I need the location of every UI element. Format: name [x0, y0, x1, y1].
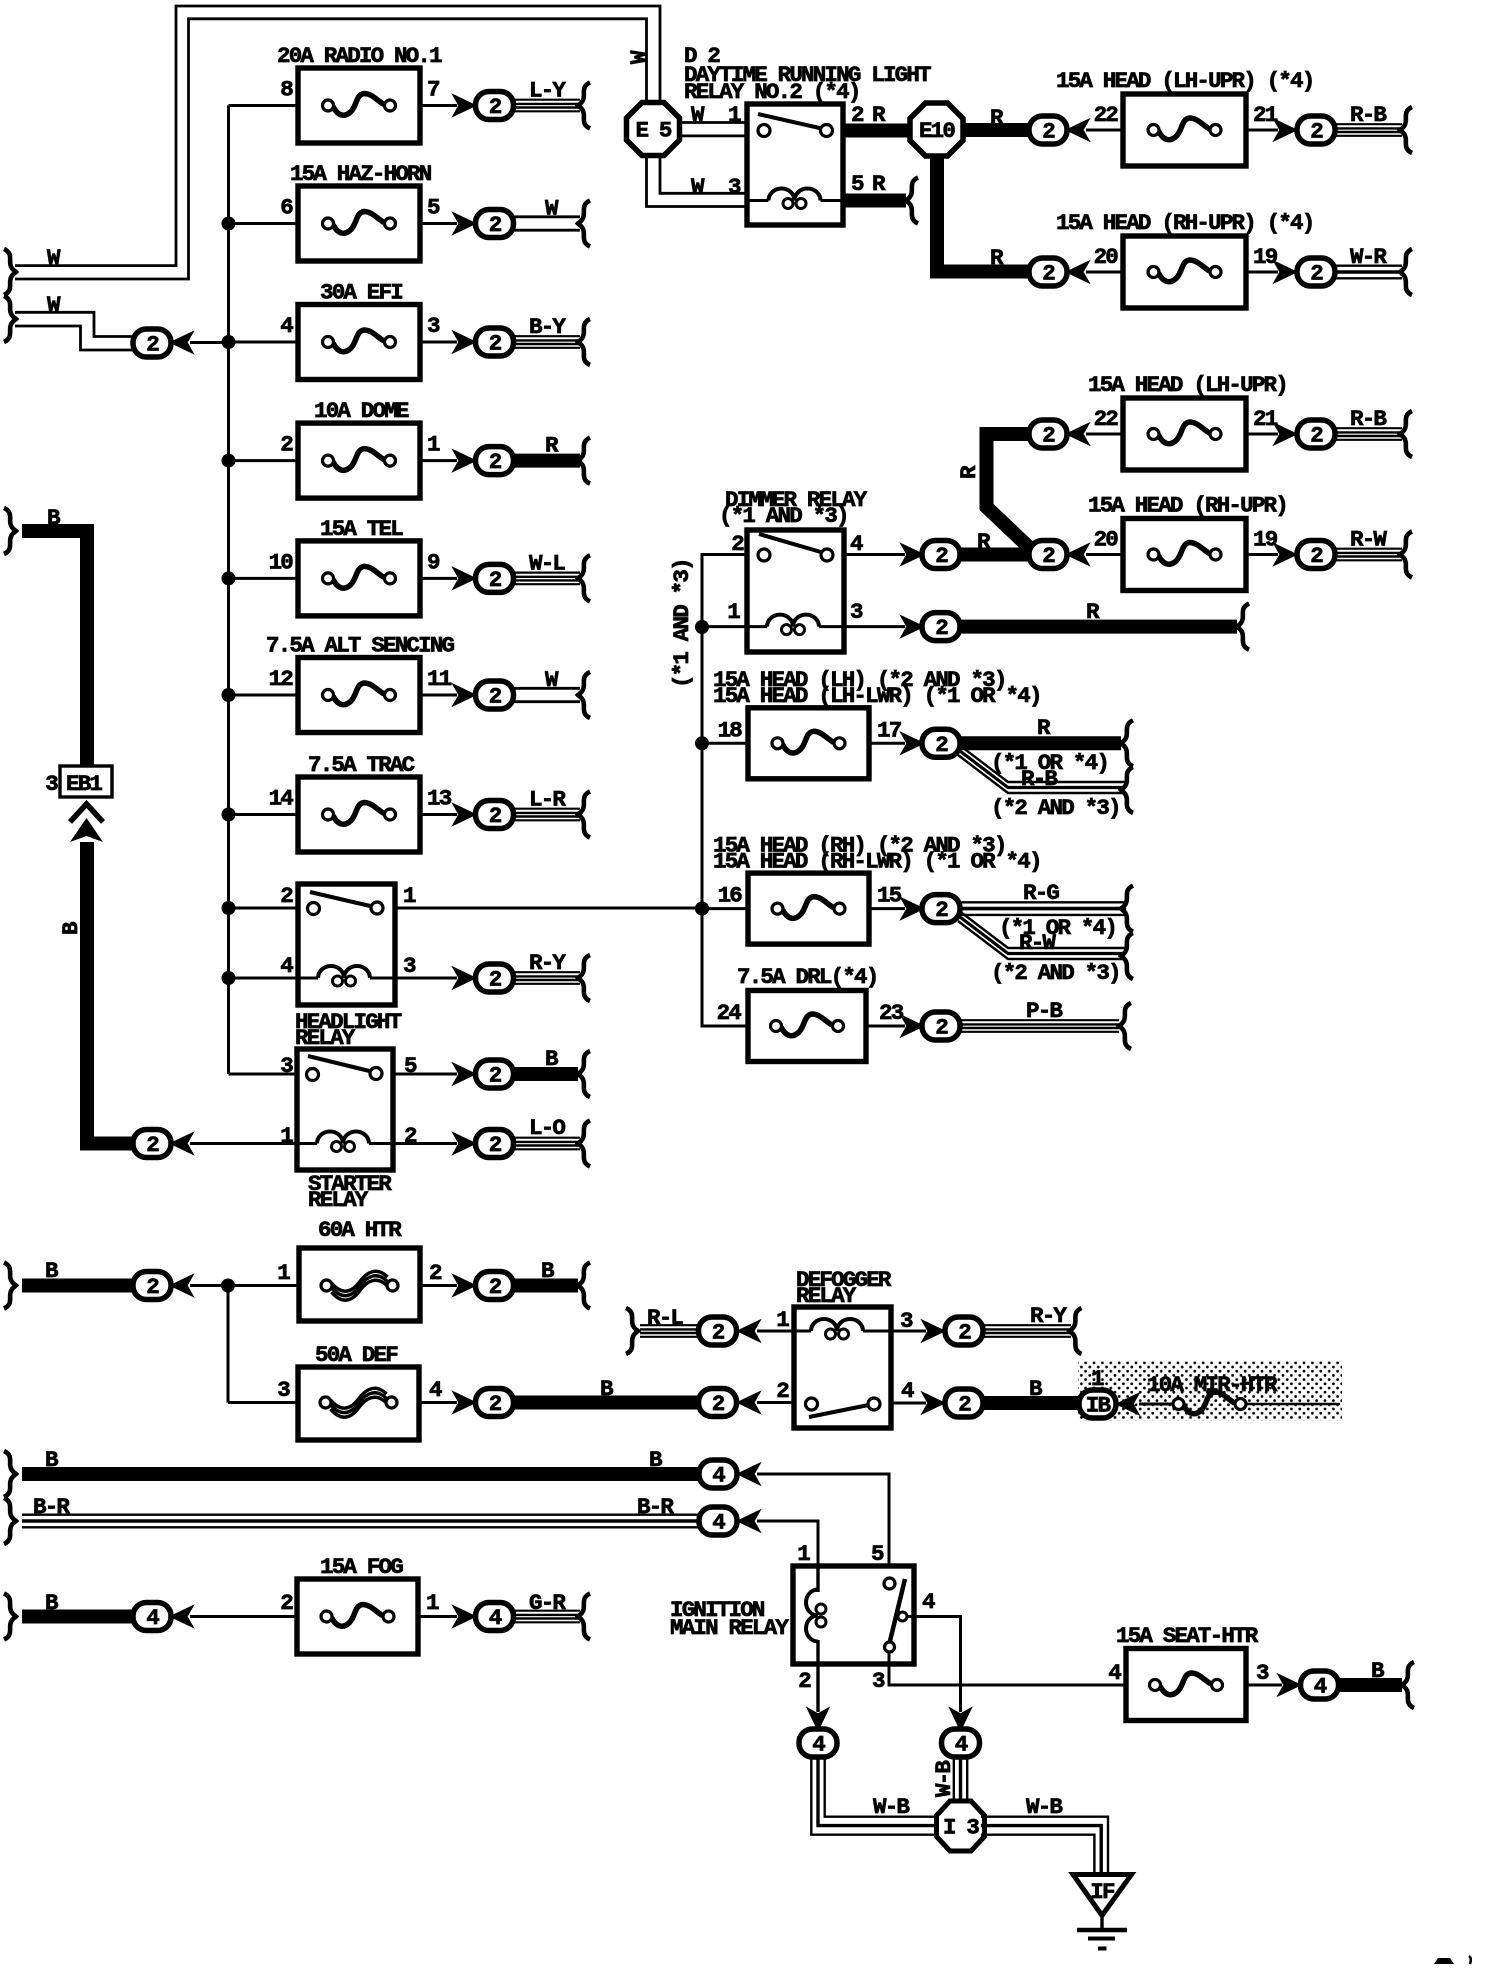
wire: connector to fuse — [1086, 433, 1123, 436]
svg-text:3: 3 — [1256, 1660, 1269, 1686]
svg-text:4: 4 — [922, 1589, 935, 1615]
fuse F6 7.5A ALT SENCING — [266, 633, 455, 733]
arrow into connector — [1276, 425, 1296, 444]
connector 2 (J/B) for F1 20A RADIO NO.1 — [476, 92, 514, 121]
wire R-G off-page (striped) — [959, 901, 1126, 903]
connector 4 (SEAT output) — [1301, 1671, 1339, 1700]
wire R-Y off-page (striped) — [983, 1324, 1071, 1326]
svg-text:(*1 AND *3): (*1 AND *3) — [669, 559, 695, 688]
wire: fuse output to connector — [420, 222, 457, 225]
svg-text:60A HTR: 60A HTR — [318, 1217, 402, 1243]
wire: ignition relay pin 3 to seat fuse — [889, 1652, 1126, 1685]
wire: bus to headlight relay pin 2 — [229, 907, 299, 910]
wire: fuse output — [1246, 1684, 1282, 1687]
fuse F5 15A TEL — [298, 516, 420, 616]
svg-text:2: 2 — [404, 1123, 417, 1149]
arrow into connector — [924, 1394, 944, 1413]
wire: connector to ignition relay pin 5 — [757, 1474, 889, 1566]
relay IGNITION MAIN RELAY — [793, 1566, 914, 1664]
wire W-B: pin4 connector down to I3 (striped) — [953, 1757, 955, 1802]
wire R: dimmer feed up-elbow to LH-UPR connector (thick) — [987, 434, 1036, 553]
continuation brace — [1400, 411, 1412, 457]
arrow into connector — [924, 1322, 944, 1341]
svg-text:50A DEF: 50A DEF — [315, 1342, 398, 1368]
arrow into connector — [455, 1134, 475, 1153]
wire: bus stub to fuse F4 10A DOME — [229, 459, 299, 462]
svg-text:30A EFI: 30A EFI — [320, 280, 402, 306]
fuse F1 20A RADIO NO.1 — [277, 43, 442, 143]
wire: mid bus vertical — [701, 627, 704, 1026]
fuse F9 15A HEAD (RH-UPR) (*4) — [1056, 210, 1313, 308]
junction on left bus — [222, 688, 236, 702]
wire: connector to defogger relay pin 2 — [757, 1401, 794, 1404]
wire W-L off-page — [514, 571, 580, 573]
svg-text:15A HEAD (LH-UPR): 15A HEAD (LH-UPR) — [1088, 372, 1287, 398]
svg-text:2: 2 — [280, 432, 293, 458]
svg-text:R-Y: R-Y — [529, 950, 566, 976]
connector IB — [1079, 1390, 1116, 1419]
wire W-R off-page — [1335, 265, 1402, 267]
relay STARTER RELAY — [297, 1049, 393, 1170]
svg-text:4: 4 — [1108, 1660, 1121, 1686]
svg-text:17: 17 — [877, 717, 901, 743]
connector 2 (starter relay coil out) — [476, 1130, 514, 1159]
arrow into connector — [1068, 263, 1088, 282]
connector 2 output of F9 15A HEAD (RH-UPR) (*4) — [1297, 258, 1335, 287]
wire: fuse output to connector — [420, 104, 457, 107]
arrow into connector — [739, 1465, 759, 1484]
continuation brace — [1070, 1308, 1082, 1354]
fuse F3 30A EFI — [298, 280, 420, 380]
wire: connector to fuse — [1086, 129, 1123, 132]
connector 2 output of F8 15A HEAD (LH-UPR) (*4) — [1297, 116, 1335, 145]
svg-text:W-B: W-B — [873, 1794, 910, 1820]
splice EB1 — [60, 766, 112, 797]
wire: starter relay pin 5 to connector — [393, 1073, 457, 1076]
wire: bus stub to fuse F5 15A TEL — [229, 577, 299, 580]
svg-text:12: 12 — [269, 666, 294, 692]
scan speck — [1469, 1956, 1471, 1964]
arrow into connector — [455, 805, 475, 824]
svg-text:MAIN RELAY: MAIN RELAY — [670, 1615, 789, 1641]
arrow into connector — [903, 734, 923, 753]
svg-text:14: 14 — [269, 786, 294, 812]
wire: bus end into starter relay pin 3 — [229, 1073, 298, 1076]
arrow into connector — [455, 686, 475, 705]
svg-text:15: 15 — [877, 883, 902, 909]
svg-text:R-L: R-L — [647, 1305, 683, 1331]
connector 2 feeding F8 15A HEAD (LH-UPR) (*4) — [1029, 116, 1067, 145]
continuation brace — [578, 438, 590, 484]
wire: dimmer pin 4 to connector — [844, 553, 905, 556]
svg-text:R-B: R-B — [1350, 102, 1387, 128]
wire: bus stub to fuse F6 7.5A ALT SENCING — [229, 694, 299, 697]
svg-text:R-G: R-G — [1023, 880, 1059, 906]
relay DIMMER RELAY (*1 AND *3) — [747, 530, 844, 652]
wire W-B: pin2 connector down and right to I3 (striped) — [811, 1757, 940, 1835]
junction HTR/DEF feed — [221, 1279, 235, 1293]
svg-text:R-Y: R-Y — [1030, 1303, 1067, 1329]
svg-text:20: 20 — [1094, 527, 1119, 553]
svg-text:3: 3 — [872, 1668, 885, 1694]
arrow into connector — [1068, 121, 1088, 140]
wire L-Y off-page — [514, 99, 580, 101]
connector 2 feeding F9 15A HEAD (RH-UPR) (*4) — [1029, 258, 1067, 287]
continuation brace — [906, 178, 918, 224]
svg-text:10A DOME: 10A DOME — [314, 398, 409, 424]
connector I3 (octagon) — [937, 1801, 985, 1851]
svg-text:20: 20 — [1094, 244, 1119, 270]
connector 2 output of F13 15A HEAD (RH) — [922, 895, 960, 924]
svg-text:6: 6 — [280, 195, 293, 221]
fuse 10A MIR-HTR — [1139, 1392, 1340, 1414]
wire B off-page (thick) — [514, 1279, 578, 1293]
continuation brace — [578, 672, 590, 718]
continuation brace — [578, 955, 590, 1001]
svg-text:5: 5 — [427, 195, 440, 221]
wire: DRL fuse output — [866, 1025, 905, 1028]
svg-text:21: 21 — [1253, 102, 1278, 128]
wire: bus to fuse — [702, 742, 748, 745]
continuation brace — [4, 296, 16, 342]
continuation brace — [578, 1594, 590, 1640]
wire R: E10 down to RH-UPR fuse connector (thick) — [937, 155, 1031, 272]
wire R: relay pin 2 to E10 (thick) — [843, 124, 912, 138]
wire L-O off-page (striped) — [514, 1137, 580, 1139]
relay HEADLIGHT RELAY — [298, 884, 395, 1005]
svg-text:2: 2 — [280, 1590, 293, 1616]
arrow into connector — [455, 214, 475, 233]
svg-text:1: 1 — [280, 1123, 293, 1149]
wire: fuse output — [1246, 129, 1278, 132]
svg-text:L-Y: L-Y — [529, 78, 566, 104]
svg-text:10: 10 — [269, 549, 294, 575]
junction on left bus — [222, 971, 236, 985]
svg-text:(*2 AND *3): (*2 AND *3) — [991, 960, 1120, 986]
svg-text:(*2 AND *3): (*2 AND *3) — [991, 795, 1120, 821]
connector E5 (octagon) — [627, 103, 680, 156]
svg-text:2: 2 — [280, 883, 293, 909]
fuse F8 15A HEAD (LH-UPR) (*4) — [1056, 68, 1313, 166]
svg-text:RELAY NO.2 (*4): RELAY NO.2 (*4) — [684, 79, 860, 105]
wire: dimmer pin 1 to bus — [702, 625, 747, 628]
continuation brace — [4, 1451, 16, 1497]
svg-text:1: 1 — [426, 1590, 439, 1616]
connector 2 (J/B) for F6 7.5A ALT SENCING — [476, 681, 514, 710]
arrow out of connector — [739, 1393, 759, 1412]
svg-text:1: 1 — [727, 599, 740, 625]
wire R-B off-page — [1335, 123, 1402, 125]
connector 2 (J/B) for F5 15A TEL — [476, 564, 514, 593]
continuation brace — [4, 1498, 16, 1544]
svg-text:I 3: I 3 — [943, 1815, 979, 1841]
wire: dimmer pin 3 to connector — [844, 625, 905, 628]
svg-text:15A HEAD (LH-UPR) (*4): 15A HEAD (LH-UPR) (*4) — [1056, 68, 1313, 94]
wire: bus to fuse — [702, 907, 748, 910]
svg-text:B-R: B-R — [33, 1494, 70, 1520]
connector 4 (FOG feed) — [133, 1603, 171, 1632]
continuation brace — [4, 1263, 16, 1309]
svg-text:1: 1 — [403, 883, 416, 909]
hatched area (other circuit) — [1078, 1362, 1342, 1421]
svg-text:3: 3 — [403, 953, 416, 979]
wire B-R: ignition relay pin 1 feed off-page (striped) — [22, 1513, 700, 1515]
connector 2 (defogger coil out) — [945, 1317, 983, 1346]
svg-text:L-O: L-O — [529, 1115, 565, 1141]
wire: bus stub to fuse F7 7.5A TRAC — [229, 813, 299, 816]
connector 4 (B-R feed) — [699, 1507, 737, 1536]
svg-text:4: 4 — [429, 1377, 442, 1403]
wire R off-page (thick) — [959, 620, 1237, 634]
arrow into connector — [172, 1134, 192, 1153]
wire: fuse output — [869, 742, 905, 745]
arrow into connector — [172, 1607, 192, 1626]
wire: bus stub to fuse F3 30A EFI — [229, 341, 299, 344]
wire W off-page — [514, 687, 580, 690]
svg-text:4: 4 — [280, 313, 293, 339]
connector 2 output of F12 15A HEAD (LH) — [922, 729, 960, 758]
continuation brace — [578, 792, 590, 838]
svg-text:19: 19 — [1253, 244, 1278, 270]
wire R-B off-page (striped, diagonal then horizontal) — [958, 744, 1126, 782]
svg-text:R-B: R-B — [1350, 406, 1387, 432]
fuse F10 15A HEAD (LH-UPR) — [1088, 372, 1287, 470]
wire R: E10 to LH-UPR fuse connector (thick) — [962, 123, 1031, 137]
wire B: EB1 riser upper segment (thick) — [22, 531, 87, 766]
wire: connector to fuse — [1086, 271, 1123, 274]
wire R off-page — [514, 454, 580, 468]
fuse F14 7.5A DRL(*4) — [748, 991, 866, 1062]
svg-text:4: 4 — [280, 953, 293, 979]
continuation brace (R-W) — [1121, 933, 1133, 979]
wire B off-page left (thick) — [22, 1610, 133, 1624]
wire B off-page (thick) — [514, 1067, 578, 1081]
wire R off-page (thick) — [959, 736, 1121, 750]
connector 2 output of F11 15A HEAD (RH-UPR) — [1297, 541, 1335, 570]
arrow into connector — [455, 333, 475, 352]
wire: 60A HTR output — [420, 1284, 457, 1287]
svg-text:11: 11 — [427, 666, 452, 692]
svg-text:W-R: W-R — [1350, 244, 1387, 270]
wire W: E5 to relay pin 3 (hollow) — [647, 155, 748, 207]
wire: dimmer pin 2 to mid bus — [702, 555, 747, 628]
continuation brace — [578, 555, 590, 601]
continuation brace — [578, 1051, 590, 1097]
junction mid bus at headlamp feed — [695, 902, 709, 916]
arrow into connector — [739, 1512, 759, 1531]
wire R-B off-page — [1335, 427, 1402, 429]
arrow into connector — [1276, 263, 1296, 282]
arrow into connector — [1068, 545, 1088, 564]
connector 2 feeding F10 15A HEAD (LH-UPR) — [1029, 420, 1067, 449]
svg-text:15A HEAD (RH-LWR) (*1 OR *4): 15A HEAD (RH-LWR) (*1 OR *4) — [713, 848, 1041, 874]
connector 4 (B feed) — [699, 1460, 737, 1489]
wire: connector to 60A HTR — [190, 1284, 299, 1287]
svg-text:15A HEAD (LH-LWR) (*1 OR *4): 15A HEAD (LH-LWR) (*1 OR *4) — [713, 683, 1041, 709]
scan speck — [1434, 1958, 1454, 1964]
wire: connector to fuse — [1086, 553, 1123, 556]
svg-text:1: 1 — [427, 432, 440, 458]
fuse 15A SEAT-HTR — [1126, 1649, 1246, 1721]
arrow into connector — [455, 1065, 475, 1084]
connector 2 (J/B) for F2 15A HAZ-HORN — [476, 210, 514, 239]
continuation brace (R) — [1121, 720, 1133, 766]
svg-text:L-R: L-R — [529, 787, 566, 813]
svg-text:7.5A DRL(*4): 7.5A DRL(*4) — [737, 964, 877, 990]
wire: bus stub to fuse F2 15A HAZ-HORN — [229, 222, 299, 225]
svg-text:15A HEAD (RH-UPR): 15A HEAD (RH-UPR) — [1088, 493, 1287, 519]
svg-text:3: 3 — [427, 313, 440, 339]
relay D2 DAYTIME RUNNING LIGHT RELAY NO.2 — [747, 104, 843, 225]
svg-text:16: 16 — [718, 883, 743, 909]
arrow into connector — [1068, 425, 1088, 444]
connector 2 (EFI feed) — [133, 329, 171, 358]
wire B-Y off-page — [514, 335, 580, 337]
continuation brace — [1400, 249, 1412, 295]
arrow down into connector — [951, 1710, 970, 1730]
wire R-L off-page (striped) — [640, 1324, 699, 1326]
arrow into connector — [1276, 545, 1296, 564]
wire: headlight relay pin 1 to mid bus — [395, 907, 702, 910]
svg-text:P-B: P-B — [1026, 998, 1063, 1024]
wire B off-page (thick) — [1339, 1678, 1402, 1692]
connector 4 (pin 2 out) — [799, 1729, 837, 1758]
svg-text:R-W: R-W — [1019, 930, 1056, 956]
wire W: E5 to relay pin 1 (hollow) — [679, 121, 747, 124]
fuse 15A FOG — [297, 1579, 418, 1654]
arrow into connector — [455, 451, 475, 470]
svg-text:3: 3 — [850, 599, 863, 625]
svg-text:19: 19 — [1253, 527, 1278, 553]
wire R: relay pin 5 off-page (thick) — [843, 194, 906, 208]
wire: mid bus elbow into DRL fuse — [702, 909, 748, 1026]
connector 2 feeding F11 15A HEAD (RH-UPR) — [1029, 541, 1067, 570]
connector 2 (DRL output) — [922, 1012, 960, 1041]
svg-text:5: 5 — [871, 1541, 884, 1567]
arrow into connector — [903, 617, 923, 636]
junction on left bus — [222, 571, 236, 585]
connector 2 (starter relay output) — [476, 1060, 514, 1089]
svg-text:E 5: E 5 — [635, 118, 671, 144]
svg-text:1: 1 — [797, 1541, 810, 1567]
svg-text:1: 1 — [277, 1260, 290, 1286]
wire: starter relay pin 2 to connector — [393, 1142, 457, 1145]
ground symbol — [1077, 1915, 1127, 1949]
svg-text:(*1 AND *3): (*1 AND *3) — [719, 503, 848, 529]
wire W-B: I3 right to IF ground (striped) — [981, 1817, 1108, 1872]
arrow down into connector — [809, 1710, 828, 1730]
svg-text:15A TEL: 15A TEL — [320, 516, 403, 542]
svg-text:RELAY: RELAY — [308, 1187, 369, 1213]
svg-text:R-B: R-B — [1021, 766, 1058, 792]
arrow into connector — [903, 899, 923, 918]
wire: FOG fuse output — [418, 1615, 457, 1618]
continuation brace — [1400, 107, 1412, 153]
arrow into connector — [172, 333, 192, 352]
wire: fuse output — [869, 907, 905, 910]
svg-text:B-Y: B-Y — [529, 314, 566, 340]
arrow into connector — [455, 969, 475, 988]
arrow into connector — [172, 1276, 192, 1295]
wire R-Y off-page (striped) — [514, 971, 580, 973]
svg-text:W-B: W-B — [931, 1760, 957, 1797]
wire B off-page left (thick) — [22, 1279, 133, 1293]
wire B to defogger relay (thick) — [514, 1396, 699, 1410]
wire P-B off-page (striped) — [959, 1019, 1119, 1021]
wire W: connector to off-page (30A EFI feed, hollow) — [15, 312, 136, 336]
svg-text:W-B: W-B — [1026, 1794, 1063, 1820]
wire: relay pin 3 to connector — [395, 977, 457, 980]
wire: feed into 50A DEF — [228, 1401, 298, 1404]
wire: fuse output — [1246, 271, 1278, 274]
fusible link 60A HTR — [299, 1248, 420, 1321]
connector 2 (starter relay coil feed) — [133, 1130, 171, 1159]
fuse F13 15A HEAD (RH) — [748, 873, 869, 944]
svg-text:9: 9 — [427, 549, 440, 575]
svg-text:(*1 OR *4): (*1 OR *4) — [999, 915, 1116, 941]
continuation brace — [1119, 1003, 1131, 1049]
connector 2 (headlight relay coil) — [476, 964, 514, 993]
fuse F12 15A HEAD (LH) — [748, 708, 869, 779]
continuation brace — [578, 83, 590, 129]
wire G-R off-page (striped) — [514, 1610, 580, 1612]
svg-text:E10: E10 — [919, 118, 955, 144]
svg-text:3: 3 — [45, 771, 58, 797]
continuation brace — [4, 508, 16, 554]
junction on mid bus — [695, 902, 709, 916]
svg-text:15A HEAD (RH-UPR) (*4): 15A HEAD (RH-UPR) (*4) — [1056, 210, 1313, 236]
wire R-W off-page — [1335, 548, 1402, 550]
wire: defogger pin 3 to connector — [891, 1330, 926, 1333]
arrow into connector — [455, 1393, 475, 1412]
arrow chevron below EB1 — [70, 804, 103, 822]
arrow into connector — [455, 1607, 475, 1626]
svg-text:G-R: G-R — [529, 1590, 566, 1616]
connector E10 (octagon) — [910, 103, 963, 156]
wire: defogger pin 4 to connector — [891, 1402, 926, 1405]
continuation brace — [4, 1594, 16, 1640]
junction on left bus — [222, 901, 236, 915]
wire B: EB1 riser lower segment (thick) — [87, 842, 133, 1144]
wire: bus stub to fuse F1 20A RADIO NO.1 — [229, 104, 299, 107]
wire: fuse output to connector — [420, 341, 457, 344]
svg-text:15A SEAT-HTR: 15A SEAT-HTR — [1116, 1623, 1259, 1649]
continuation brace — [578, 319, 590, 365]
svg-text:13: 13 — [427, 786, 452, 812]
arrow into connector — [739, 1322, 759, 1341]
connector 2 (J/B) for F4 10A DOME — [476, 447, 514, 476]
wire B to IB (thick) — [983, 1396, 1079, 1410]
connector 2 (DEF output) — [476, 1389, 514, 1418]
connector 2 output of F10 15A HEAD (LH-UPR) — [1297, 420, 1335, 449]
wire B: ignition relay pin 5 feed off-page (thick) — [22, 1467, 700, 1481]
svg-text:15A HAZ-HORN: 15A HAZ-HORN — [290, 161, 432, 187]
wire W off-page — [514, 215, 580, 218]
continuation brace — [1400, 532, 1412, 578]
svg-text:21: 21 — [1253, 406, 1278, 432]
fuse F4 10A DOME — [298, 398, 420, 498]
svg-text:24: 24 — [717, 1000, 742, 1026]
connector 4 (pin 4 out) — [942, 1729, 980, 1758]
connector 2 (HTR output) — [476, 1272, 514, 1301]
fusible link 50A DEF — [298, 1367, 419, 1440]
continuation brace — [578, 1263, 590, 1309]
connector 2 (dimmer coil) — [922, 613, 960, 642]
svg-text:5: 5 — [851, 171, 864, 197]
wire: ignition relay pin 4 elbow down — [907, 1617, 961, 1713]
connector 2 (defogger feed) — [699, 1389, 737, 1418]
continuation brace — [1237, 604, 1249, 650]
